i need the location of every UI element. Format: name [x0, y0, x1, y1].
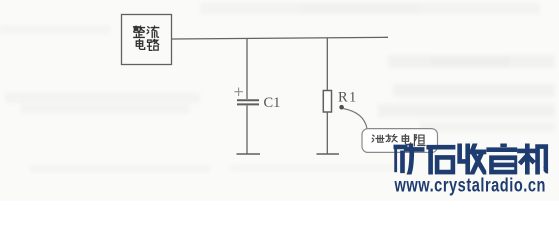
capacitor C1 polarity + mark: [234, 88, 243, 97]
svg-text:www.crystalradio.cn: www.crystalradio.cn: [394, 175, 546, 196]
callout bubble 泄放电阻 (bleeder resistor): [362, 129, 438, 153]
svg-text:R1: R1: [338, 90, 358, 106]
value label R1: [338, 90, 358, 106]
terminal bar under R1: [317, 153, 340, 155]
watermark logo 矿石收音机: [394, 144, 549, 174]
svg-text:C1: C1: [264, 95, 281, 111]
wire: resistor lower lead: [326, 112, 328, 154]
wire: capacitor branch drop: [246, 39, 248, 100]
wire: resistor branch drop: [326, 38, 328, 91]
callout leader curve: [344, 109, 368, 129]
value label C1: [264, 95, 281, 111]
callout anchor dot on R1: [339, 105, 344, 110]
wire: top bus from rectifier output: [172, 37, 388, 39]
watermark url: [394, 175, 546, 196]
wire: capacitor lower lead: [246, 105, 248, 154]
terminal bar under C1: [237, 153, 261, 155]
rectifier block U1 (整流电路): [122, 15, 172, 65]
resistor R1 body: [323, 91, 331, 113]
capacitor C1 plates: [237, 100, 259, 104]
